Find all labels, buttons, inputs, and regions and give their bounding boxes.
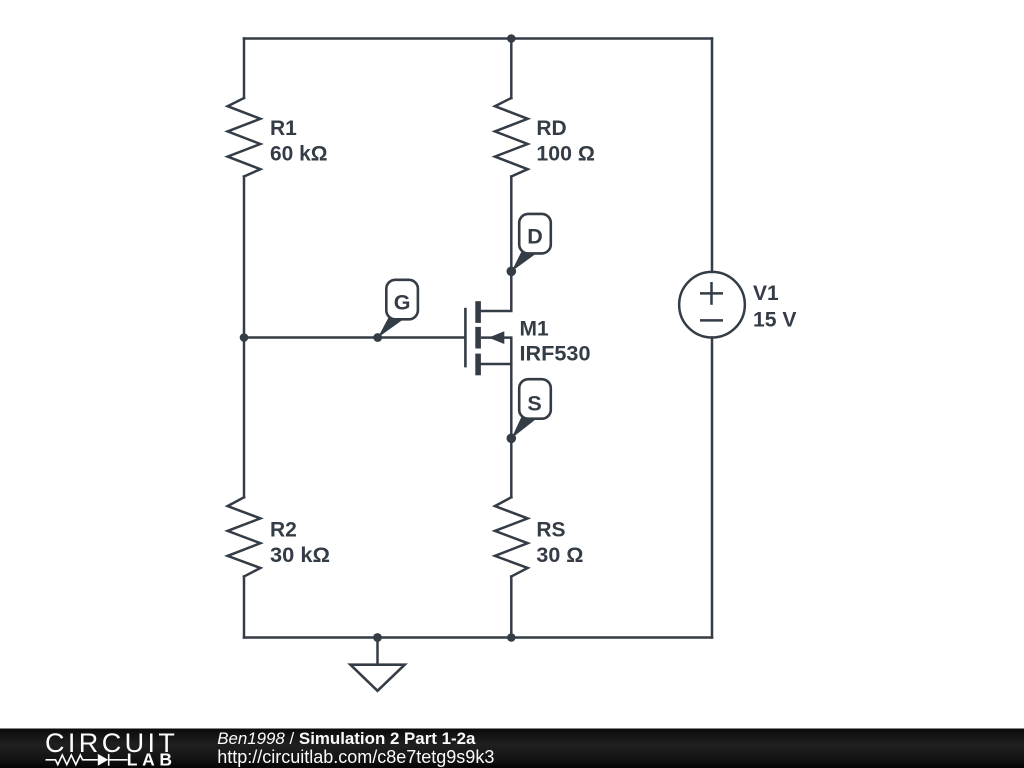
node top junction	[507, 34, 516, 43]
svg-text:M1: M1	[520, 317, 549, 340]
wire left branch upper	[243, 39, 246, 99]
label R1	[270, 117, 328, 166]
M1 channel bar body	[475, 327, 481, 349]
node S source	[507, 434, 517, 444]
svg-text:30 Ω: 30 Ω	[536, 544, 583, 567]
resistor RD	[495, 98, 528, 177]
wire mosfet body-source down	[510, 338, 513, 498]
svg-text:100 Ω: 100 Ω	[536, 143, 595, 166]
M1 channel bar source	[475, 354, 481, 376]
label RS	[536, 518, 583, 567]
wire drain node to mosfet drain	[481, 271, 511, 311]
M1 channel bar drain	[475, 301, 481, 323]
node left gate junction	[240, 333, 249, 342]
wire top rail	[244, 37, 712, 40]
transistor M1 mosfet symbol	[465, 301, 511, 375]
voltage source V1	[679, 272, 745, 338]
svg-text:RS: RS	[536, 518, 565, 541]
label R2	[270, 518, 330, 567]
resistor RS	[495, 497, 528, 576]
wire gate	[244, 336, 464, 339]
wire left branch middle	[243, 177, 246, 498]
label V1 15 V	[753, 282, 797, 332]
wire mosfet source to RS	[481, 363, 511, 366]
svg-text:30 kΩ: 30 kΩ	[270, 544, 330, 567]
wire left branch lower	[243, 577, 246, 638]
wire RD to drain node	[510, 177, 513, 272]
wire right branch upper	[711, 39, 714, 272]
flag G	[378, 280, 418, 338]
M1 body horizontal	[481, 336, 511, 339]
node gate flag point	[373, 333, 382, 342]
label M1 IRF530	[520, 317, 591, 365]
svg-text:R1: R1	[270, 117, 297, 140]
svg-text:http://circuitlab.com/c8e7tetg: http://circuitlab.com/c8e7tetg9s9k3	[217, 747, 494, 767]
svg-text:LAB: LAB	[127, 750, 177, 768]
M1 body arrow	[489, 331, 505, 344]
node ground junction	[373, 633, 382, 642]
node D drain	[507, 267, 517, 277]
node bottom middle junction	[507, 633, 516, 642]
ground	[350, 665, 404, 691]
M1 gate bar	[464, 308, 467, 368]
logo resistor-diode line art	[46, 754, 128, 766]
footer bar	[0, 729, 1024, 768]
wire RS to bottom rail	[510, 577, 513, 638]
wire ground stub	[376, 638, 379, 665]
svg-text:D: D	[527, 225, 543, 249]
resistor R1	[228, 98, 261, 177]
svg-text:60 kΩ: 60 kΩ	[270, 143, 328, 166]
resistor R2	[228, 497, 261, 576]
svg-text:15 V: 15 V	[753, 309, 797, 332]
svg-text:RD: RD	[536, 117, 566, 140]
svg-text:G: G	[394, 290, 411, 314]
svg-text:IRF530: IRF530	[520, 342, 591, 365]
flag D	[512, 214, 551, 272]
flag S	[511, 379, 551, 438]
svg-text:V1: V1	[753, 282, 779, 305]
wire middle branch top	[510, 39, 513, 99]
label RD	[536, 117, 595, 166]
svg-text:R2: R2	[270, 518, 297, 541]
svg-text:Ben1998 / Simulation 2 Part 1-: Ben1998 / Simulation 2 Part 1-2a	[217, 729, 476, 748]
svg-text:S: S	[527, 391, 541, 415]
wire bottom rail	[244, 636, 712, 639]
wire right branch lower	[711, 338, 714, 638]
